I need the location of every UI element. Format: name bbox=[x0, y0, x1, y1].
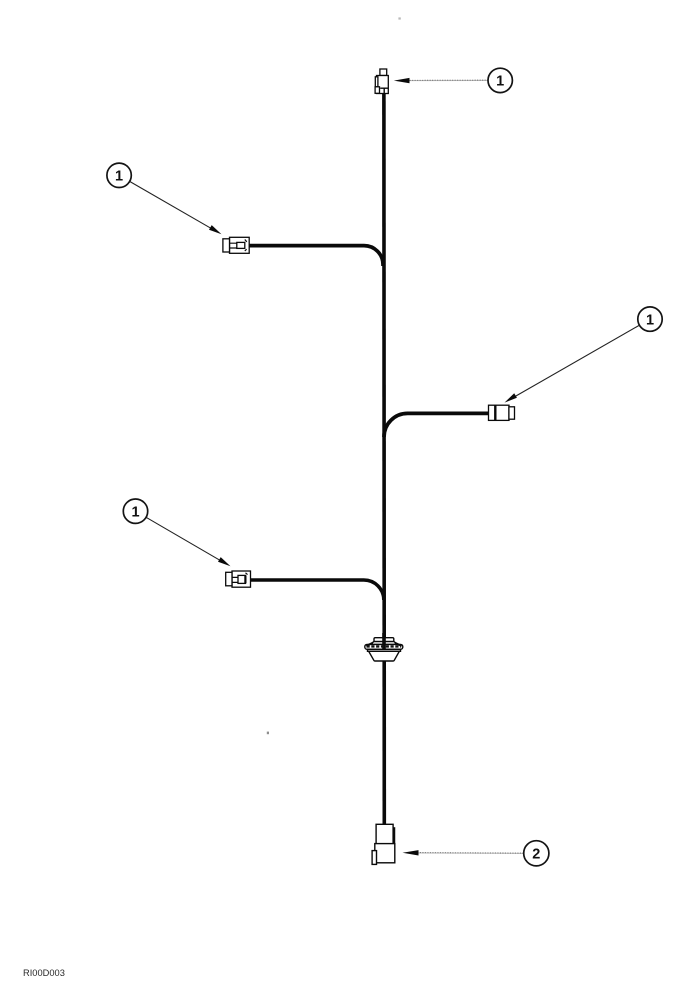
callout leader 1 (top) bbox=[394, 78, 488, 83]
callout circle 1 (right) bbox=[638, 307, 662, 331]
wire: lower-left branch bbox=[250, 580, 384, 600]
connector (bottom, item 2) bbox=[372, 824, 395, 864]
callout circle 1 (lower-left) bbox=[123, 499, 147, 523]
callout circle 1 (top) bbox=[488, 68, 512, 92]
grommet bbox=[365, 638, 403, 661]
svg-text:RI00D003: RI00D003 bbox=[23, 968, 65, 978]
callout leader 1 (lower-left) bbox=[146, 517, 230, 566]
wire: upper-left branch bbox=[249, 246, 383, 266]
connector (upper-left, item 1) bbox=[223, 237, 249, 253]
callout leader 1 (upper-left) bbox=[130, 181, 222, 234]
svg-text:2: 2 bbox=[532, 847, 540, 863]
svg-text:1: 1 bbox=[131, 504, 139, 520]
scan speck (top) bbox=[398, 17, 400, 19]
connector (lower-left, item 1) bbox=[226, 571, 251, 587]
callout leader 1 (right) bbox=[505, 326, 639, 403]
wire: main harness vertical run bbox=[382, 92, 386, 824]
connector (right, item 1) bbox=[489, 405, 515, 420]
callout circle 1 (upper-left) bbox=[107, 163, 131, 187]
svg-text:1: 1 bbox=[646, 312, 654, 328]
grommet rim wedges bbox=[366, 643, 401, 646]
svg-text:1: 1 bbox=[115, 169, 123, 185]
connector (top, item 1) bbox=[375, 69, 388, 94]
wire: right branch bbox=[384, 413, 489, 437]
scan speck (middle) bbox=[267, 732, 269, 735]
grommet hatch band bbox=[367, 645, 402, 647]
callout leader 2 (bottom) bbox=[403, 850, 524, 855]
wire visible through grommet neck bbox=[382, 633, 386, 649]
callout circle 2 (bottom) bbox=[524, 841, 549, 866]
svg-text:1: 1 bbox=[496, 74, 504, 90]
